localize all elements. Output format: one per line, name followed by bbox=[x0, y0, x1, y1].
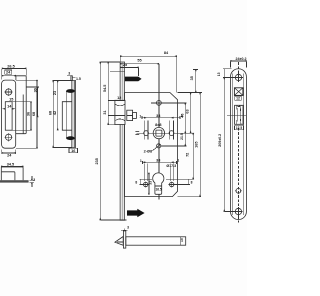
svg-text:12: 12 bbox=[236, 96, 240, 100]
faceplate front view plate bbox=[231, 69, 247, 220]
section detail bar bbox=[126, 237, 186, 245]
strike top view plate bar bbox=[0, 180, 29, 182]
dim 34.5 bbox=[1, 162, 23, 167]
faceplate deadbolt slot bbox=[227, 105, 246, 124]
svg-text:26.5: 26.5 bbox=[7, 64, 14, 68]
strike top view inner box bbox=[2, 172, 15, 180]
main view faceplate edge bbox=[120, 62, 125, 220]
svg-text:46: 46 bbox=[180, 113, 184, 117]
svg-text:38: 38 bbox=[156, 114, 160, 118]
dim 235 rotated bbox=[95, 62, 127, 220]
dim 3 section bbox=[121, 225, 129, 231]
dim 8 left bbox=[135, 179, 152, 185]
dim 84 bbox=[120, 51, 177, 92]
strike lip outline bbox=[16, 76, 26, 134]
dim 21.5 rotated bbox=[180, 133, 185, 146]
strike side view bar bbox=[72, 81, 76, 148]
main centerline bbox=[158, 64, 160, 199]
latch tail inside case bbox=[127, 110, 137, 120]
lock case outline bbox=[125, 93, 178, 197]
svg-text:209±0.2: 209±0.2 bbox=[218, 134, 222, 147]
faceplate inner edge lines bbox=[233, 74, 244, 216]
svg-text:3: 3 bbox=[127, 225, 129, 229]
dim 68 rotated side bbox=[48, 81, 72, 148]
follower left satellite bbox=[144, 120, 149, 139]
dim 13 rotated bbox=[217, 69, 236, 78]
faceplate middle hole bbox=[235, 187, 242, 194]
dim 12.5 boxed bbox=[235, 126, 244, 131]
svg-text:24±0.2: 24±0.2 bbox=[236, 57, 247, 61]
svg-text:3: 3 bbox=[33, 178, 35, 182]
svg-text:38: 38 bbox=[156, 159, 160, 163]
dim 23 rotated bbox=[53, 81, 58, 131]
svg-text:15: 15 bbox=[9, 98, 13, 102]
svg-text:13: 13 bbox=[217, 72, 221, 76]
euro cylinder hole bbox=[153, 173, 164, 194]
svg-text:1: 1 bbox=[140, 159, 142, 163]
dim 16 boxed bbox=[69, 148, 77, 153]
latch bolt protruding bbox=[115, 100, 125, 124]
dim 12 faceplate boxed bbox=[235, 96, 242, 101]
cylinder left satellite bbox=[143, 164, 149, 188]
strike latch cutout bbox=[5, 102, 12, 131]
svg-text:34.5: 34.5 bbox=[7, 162, 14, 166]
follower ext left end ticks bbox=[135, 132, 139, 135]
cylinder right satellite bbox=[169, 164, 175, 188]
svg-text:68: 68 bbox=[48, 111, 52, 115]
svg-text:25: 25 bbox=[123, 63, 127, 67]
svg-text:63: 63 bbox=[185, 109, 189, 113]
auxiliary bolt black top bbox=[125, 77, 142, 82]
svg-text:72: 72 bbox=[186, 153, 190, 157]
svg-text:33: 33 bbox=[149, 181, 153, 185]
strike side lip top bbox=[71, 76, 72, 81]
strike plate front view body bbox=[2, 80, 16, 148]
strike screw hole top bbox=[5, 88, 13, 96]
svg-text:8x8: 8x8 bbox=[155, 123, 161, 127]
svg-text:21.5: 21.5 bbox=[180, 133, 184, 140]
dim 35 rotated bbox=[190, 70, 198, 93]
cylinder fixing screw hole bbox=[157, 101, 162, 106]
dim 3 plate thickness bbox=[30, 176, 36, 187]
follower hub bbox=[153, 127, 164, 138]
strike lip inner fold line bbox=[22, 95, 24, 134]
faceplate bottom screw hole bbox=[234, 207, 243, 216]
hole 2-O8 bbox=[144, 144, 187, 154]
svg-text:55: 55 bbox=[137, 58, 141, 62]
svg-text:54.5: 54.5 bbox=[103, 85, 107, 92]
side screw boss bottom bbox=[66, 136, 75, 140]
case top ext bbox=[178, 92, 203, 94]
svg-text:15: 15 bbox=[180, 238, 184, 242]
svg-text:68: 68 bbox=[32, 112, 36, 116]
svg-text:3: 3 bbox=[68, 72, 70, 76]
strike screw hole bottom bbox=[5, 133, 13, 141]
svg-text:1.5: 1.5 bbox=[76, 77, 81, 81]
dim 209+-0.2 rotated bbox=[218, 78, 235, 212]
svg-text:1: 1 bbox=[139, 114, 141, 118]
svg-text:Ø17.3: Ø17.3 bbox=[166, 164, 176, 168]
svg-text:16: 16 bbox=[71, 149, 75, 153]
dim 3 side bbox=[67, 72, 71, 76]
dim 24+-0.2 bbox=[231, 57, 247, 68]
svg-text:235: 235 bbox=[95, 158, 99, 164]
svg-text:8: 8 bbox=[135, 181, 137, 185]
side back line bbox=[65, 91, 67, 138]
section wedge bbox=[115, 231, 126, 248]
svg-text:12: 12 bbox=[117, 96, 121, 100]
faceplate latch opening with X bbox=[234, 88, 243, 96]
follower right satellite bbox=[169, 120, 174, 139]
side screw boss top bbox=[66, 89, 75, 93]
dim 54.5 and 31 rotated bbox=[103, 62, 115, 125]
svg-text:35: 35 bbox=[190, 76, 194, 80]
faceplate centerline dashed bbox=[238, 62, 240, 222]
case bottom ext bbox=[178, 196, 202, 198]
dim 72 rotated bbox=[186, 133, 194, 179]
dim 8 right bbox=[166, 179, 194, 184]
svg-text:165: 165 bbox=[195, 142, 199, 148]
dim 1.5 side bbox=[72, 77, 81, 81]
faceplate top screw hole bbox=[234, 73, 243, 82]
dim 165 rotated bbox=[195, 93, 200, 197]
dim 38 follower bbox=[139, 114, 182, 127]
dim 14 with arrows bbox=[2, 105, 15, 109]
dim 36 rotated bbox=[12, 102, 31, 131]
dim 25 bbox=[120, 63, 138, 76]
dim 30 rotated bbox=[26, 87, 39, 117]
svg-text:31: 31 bbox=[103, 110, 107, 114]
dim 24 bottom bbox=[2, 149, 16, 157]
ext line upper left bbox=[110, 70, 125, 72]
strike top view outline bbox=[1, 167, 23, 180]
svg-text:1: 1 bbox=[177, 159, 179, 163]
ext through screw hole bbox=[151, 102, 187, 104]
auxiliary black arrow bottom bbox=[127, 209, 145, 217]
svg-text:2-Ø8: 2-Ø8 bbox=[144, 149, 152, 153]
dim 55 bbox=[120, 58, 159, 63]
dim 33 rotated bbox=[149, 173, 153, 194]
dim 38 cylinder bbox=[140, 159, 179, 164]
dim 63 rotated bbox=[185, 93, 190, 134]
dim 46 rotated bbox=[180, 103, 185, 133]
dim 12 latch bbox=[108, 96, 125, 100]
side cutout projection bbox=[62, 102, 72, 131]
dim 26.5 bbox=[2, 64, 26, 79]
svg-text:36: 36 bbox=[26, 112, 30, 116]
dim 24 boxed top bbox=[2, 70, 16, 76]
dim 68 rotated strike front bbox=[16, 80, 37, 148]
follower ext horizontal bbox=[137, 132, 194, 134]
svg-text:16.5: 16.5 bbox=[155, 187, 161, 191]
svg-text:8: 8 bbox=[191, 180, 193, 184]
svg-text:12.5: 12.5 bbox=[236, 126, 242, 130]
